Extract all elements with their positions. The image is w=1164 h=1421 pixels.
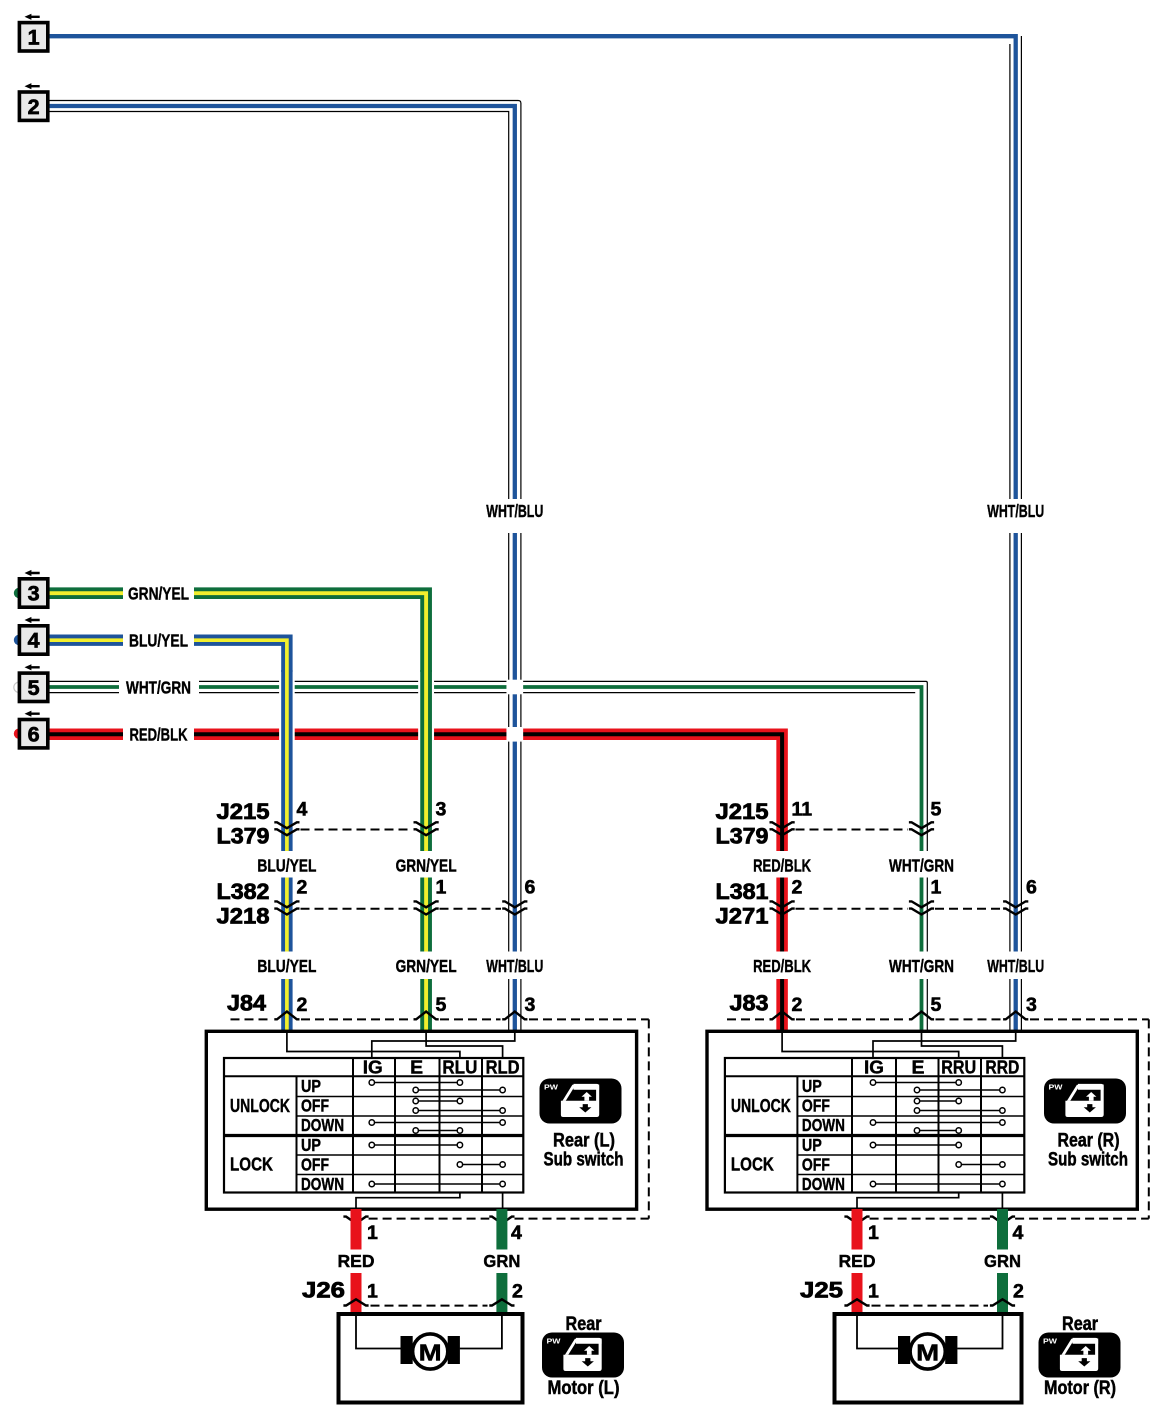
switch Rear (L): caption — [544, 1131, 624, 1171]
svg-text:5: 5 — [436, 994, 447, 1016]
wire 4 BLU/YEL from connector 4 — [46, 640, 287, 672]
pin 4 (Rear R switch output) — [1013, 1222, 1024, 1244]
svg-text:DOWN: DOWN — [802, 1115, 845, 1135]
label BLU/YEL below L382 — [257, 956, 316, 976]
inline connector J215/L379 (right) — [716, 799, 935, 849]
svg-text:Sub switch: Sub switch — [544, 1150, 624, 1171]
svg-text:RED/BLK: RED/BLK — [753, 956, 811, 976]
inline connector J215/L379 (left) — [217, 799, 439, 849]
svg-text:OFF: OFF — [301, 1096, 329, 1116]
svg-text:WHT/GRN: WHT/GRN — [889, 856, 954, 876]
connector J83 (Rear R sub switch) — [727, 991, 1149, 1020]
svg-text:BLU/YEL: BLU/YEL — [257, 856, 316, 876]
wire 2 WHT/BLU from connector 2 to Rear(L) sub switch pin 3 — [46, 101, 521, 1032]
svg-text:2: 2 — [512, 1281, 523, 1303]
svg-text:1: 1 — [367, 1222, 378, 1244]
label BLU/YEL below J215 — [257, 856, 316, 876]
svg-text:UNLOCK: UNLOCK — [230, 1096, 290, 1116]
svg-text:DOWN: DOWN — [301, 1115, 344, 1135]
svg-text:2: 2 — [792, 877, 803, 899]
svg-text:RRU: RRU — [941, 1058, 976, 1078]
motor Motor (L): motor symbol M — [401, 1334, 460, 1369]
pin 5 of J83 — [931, 994, 942, 1016]
wire 3 GRN/YEL from connector 3 — [46, 593, 426, 672]
svg-text:GRN/YEL: GRN/YEL — [396, 856, 457, 876]
connector 5 — [14, 664, 48, 701]
wire 6 RED/BLK from connector 6 — [46, 734, 782, 1031]
motor Motor (R): power window icon — [1039, 1333, 1121, 1378]
svg-text:RRD: RRD — [985, 1058, 1019, 1078]
svg-text:2: 2 — [792, 994, 803, 1016]
svg-text:1: 1 — [868, 1222, 879, 1244]
svg-text:1: 1 — [367, 1281, 378, 1303]
switch Rear (L): power window icon — [540, 1079, 622, 1124]
svg-text:RED: RED — [839, 1251, 876, 1271]
svg-text:1: 1 — [868, 1281, 879, 1303]
svg-text:1: 1 — [28, 25, 40, 49]
label GRN/YEL below L382 — [396, 956, 457, 976]
pin 2 of J25 — [1013, 1281, 1024, 1303]
svg-text:Motor (L): Motor (L) — [548, 1378, 620, 1399]
svg-text:WHT/BLU: WHT/BLU — [987, 501, 1044, 521]
label WHT/BLU below L381 — [987, 956, 1044, 976]
pin 2 of J83 — [792, 994, 803, 1016]
svg-text:E: E — [410, 1058, 423, 1078]
svg-text:RLU: RLU — [442, 1058, 477, 1078]
svg-text:5: 5 — [931, 994, 942, 1016]
svg-text:GRN: GRN — [483, 1251, 520, 1271]
switch Rear (R): box — [707, 1031, 1137, 1209]
switch Rear (R): contacts — [870, 1080, 1005, 1187]
svg-text:2: 2 — [28, 95, 40, 119]
svg-text:5: 5 — [931, 799, 942, 821]
svg-text:3: 3 — [525, 994, 536, 1016]
inline connector L381/J271 (right) — [716, 879, 1029, 929]
svg-text:3: 3 — [1026, 994, 1037, 1016]
pin 2 of J26 — [512, 1281, 523, 1303]
pin 2 of L381 — [792, 877, 803, 899]
svg-text:UP: UP — [802, 1076, 822, 1096]
svg-text:4: 4 — [28, 629, 40, 653]
label RED/BLK below L381 — [753, 956, 811, 976]
svg-text:4: 4 — [511, 1222, 522, 1244]
label WHT/GRN below L381 — [889, 956, 954, 976]
svg-text:Rear (L): Rear (L) — [553, 1131, 615, 1152]
svg-text:J84: J84 — [227, 991, 266, 1016]
svg-text:L381: L381 — [716, 879, 769, 904]
svg-text:J215: J215 — [217, 799, 270, 824]
pin 1 of L382 — [436, 877, 447, 899]
connector 1 — [19, 14, 47, 51]
pin 3 of J84 — [525, 994, 536, 1016]
svg-text:OFF: OFF — [802, 1155, 830, 1175]
label GRN/YEL below J215 — [396, 856, 457, 876]
svg-text:1: 1 — [931, 877, 942, 899]
label GRN (Motor R) — [984, 1251, 1021, 1271]
svg-text:M: M — [916, 1340, 939, 1366]
svg-text:6: 6 — [1026, 877, 1037, 899]
wire crossover gaps — [279, 680, 523, 742]
svg-text:DOWN: DOWN — [301, 1174, 344, 1194]
motor Motor (R): caption — [1044, 1314, 1116, 1399]
svg-text:WHT/BLU: WHT/BLU — [987, 956, 1044, 976]
svg-text:3: 3 — [28, 582, 40, 606]
svg-text:L379: L379 — [217, 824, 270, 849]
svg-text:LOCK: LOCK — [731, 1155, 774, 1175]
svg-text:6: 6 — [28, 722, 40, 746]
label RED/BLK wire 6 — [130, 725, 188, 745]
pin 1 (Rear L switch output) — [367, 1222, 378, 1244]
inline connector L382/J218 (left) — [217, 879, 528, 929]
svg-text:WHT/GRN: WHT/GRN — [889, 956, 954, 976]
svg-text:Rear: Rear — [566, 1314, 603, 1335]
label WHT/BLU below L382 — [486, 956, 543, 976]
pin 11 of J215 — [792, 799, 813, 821]
svg-text:UP: UP — [301, 1076, 321, 1096]
svg-text:LOCK: LOCK — [230, 1155, 273, 1175]
svg-text:J271: J271 — [716, 904, 769, 929]
connector 3 — [14, 570, 48, 607]
wire 5 WHT/GRN from connector 5 — [46, 681, 927, 1031]
connector J26 (Motor L) — [302, 1278, 515, 1306]
pin 3 of J215 — [436, 799, 447, 821]
pin 2 of L382 — [297, 877, 308, 899]
label WHT/GRN wire 5 — [126, 678, 191, 698]
pin 6 of L381 — [1026, 877, 1037, 899]
label WHT/BLU on left vertical — [486, 501, 543, 521]
connector J25 (Motor R) — [800, 1278, 1015, 1306]
label WHT/GRN below J215 — [889, 856, 954, 876]
svg-text:RED/BLK: RED/BLK — [753, 856, 811, 876]
pin 4 of J215 — [297, 799, 308, 821]
svg-text:UP: UP — [802, 1135, 822, 1155]
svg-text:2: 2 — [297, 877, 308, 899]
pin 3 of J83 — [1026, 994, 1037, 1016]
label RED (Motor R) — [839, 1251, 876, 1271]
motor Motor (L): power window icon — [542, 1333, 624, 1378]
svg-text:RED: RED — [338, 1251, 375, 1271]
connector 2 — [19, 83, 47, 120]
svg-text:Rear: Rear — [1062, 1314, 1099, 1335]
pin 1 of J25 — [868, 1281, 879, 1303]
switch Rear (L): column headers — [363, 1058, 520, 1078]
switch Rear (R): row labels — [731, 1076, 845, 1194]
switch Rear (L): internal wires from pins to contact columns — [287, 1031, 515, 1209]
motor Motor (L): caption — [548, 1314, 620, 1399]
switch Rear (R): caption — [1048, 1131, 1128, 1171]
svg-text:GRN/YEL: GRN/YEL — [128, 584, 189, 604]
connector 6 — [14, 711, 48, 748]
wire 1 WHT/BLU from connector 1 to Rear(R) sub switch pin 3 — [46, 36, 1021, 1031]
switch Rear (L): box — [206, 1031, 636, 1209]
motor Motor (R): motor symbol M — [898, 1334, 957, 1369]
svg-text:L379: L379 — [716, 824, 769, 849]
switch Rear (L): contact table grid — [224, 1058, 523, 1193]
svg-text:J26: J26 — [302, 1278, 345, 1303]
pin 1 of L381 — [931, 877, 942, 899]
svg-text:BLU/YEL: BLU/YEL — [129, 631, 188, 651]
pin 5 of J215 — [931, 799, 942, 821]
motor wire label gaps — [350, 1250, 1010, 1274]
label GRN (Motor L) — [483, 1251, 520, 1271]
svg-text:1: 1 — [436, 877, 447, 899]
label RED (Motor L) — [338, 1251, 375, 1271]
svg-text:GRN: GRN — [984, 1251, 1021, 1271]
svg-text:J215: J215 — [716, 799, 769, 824]
switch Rear (L): row labels — [230, 1076, 344, 1194]
svg-text:UNLOCK: UNLOCK — [731, 1096, 791, 1116]
label GRN/YEL wire 3 — [128, 584, 189, 604]
wire GRN to Motor(L) pin 2 — [496, 1209, 507, 1314]
svg-text:WHT/BLU: WHT/BLU — [486, 501, 543, 521]
label RED/BLK below J215 — [753, 856, 811, 876]
svg-text:OFF: OFF — [301, 1155, 329, 1175]
connector 4 — [14, 617, 48, 654]
pin 4 (Rear L switch output) — [511, 1222, 522, 1244]
motor Motor (R): box — [835, 1314, 1022, 1403]
pin 2 of J84 — [297, 994, 308, 1016]
wire GRN/YEL vertical drop to J84 pin 5 — [420, 670, 432, 1031]
motor Motor (R): internal wires — [857, 1316, 1003, 1349]
svg-text:5: 5 — [28, 676, 40, 700]
svg-text:E: E — [912, 1058, 925, 1078]
wire label gaps — [119, 499, 1023, 979]
switch Rear (R): column headers — [864, 1058, 1019, 1078]
wire BLU/YEL vertical drop to J84 pin 2 — [281, 670, 292, 1031]
pin 1 (Rear R switch output) — [868, 1222, 879, 1244]
svg-text:Rear (R): Rear (R) — [1058, 1131, 1120, 1152]
svg-text:Sub switch: Sub switch — [1048, 1150, 1128, 1171]
motor Motor (L): internal wires — [356, 1316, 502, 1349]
wire GRN to Motor(R) pin 2 — [997, 1209, 1008, 1314]
switch Rear (R): internal wires from pins to contact columns — [782, 1031, 1016, 1209]
label BLU/YEL wire 4 — [129, 631, 188, 651]
svg-text:OFF: OFF — [802, 1096, 830, 1116]
label WHT/BLU on right vertical — [987, 501, 1044, 521]
wire RED to Motor(L) pin 1 — [351, 1209, 362, 1314]
svg-text:J25: J25 — [800, 1278, 843, 1303]
svg-text:GRN/YEL: GRN/YEL — [396, 956, 457, 976]
svg-text:BLU/YEL: BLU/YEL — [257, 956, 316, 976]
svg-text:2: 2 — [1013, 1281, 1024, 1303]
svg-text:IG: IG — [864, 1058, 884, 1078]
svg-text:6: 6 — [525, 877, 536, 899]
svg-text:IG: IG — [363, 1058, 383, 1078]
svg-text:4: 4 — [1013, 1222, 1024, 1244]
svg-text:DOWN: DOWN — [802, 1174, 845, 1194]
pin 5 of J84 — [436, 994, 447, 1016]
svg-text:M: M — [419, 1340, 442, 1366]
wire RED to Motor(R) pin 1 — [852, 1209, 863, 1314]
pin 6 of L382 — [525, 877, 536, 899]
svg-text:L382: L382 — [217, 879, 270, 904]
pin 1 of J26 — [367, 1281, 378, 1303]
switch Rear (R): power window icon — [1044, 1079, 1126, 1124]
svg-text:2: 2 — [297, 994, 308, 1016]
svg-text:WHT/BLU: WHT/BLU — [486, 956, 543, 976]
svg-text:RED/BLK: RED/BLK — [130, 725, 188, 745]
svg-text:11: 11 — [792, 799, 813, 821]
svg-text:3: 3 — [436, 799, 447, 821]
switch Rear (R): contact table grid — [725, 1058, 1024, 1193]
svg-text:4: 4 — [297, 799, 308, 821]
switch Rear (R): connector dashed outline — [844, 1019, 1148, 1223]
switch Rear (L): contacts — [369, 1080, 505, 1187]
svg-text:WHT/GRN: WHT/GRN — [126, 678, 191, 698]
svg-text:J83: J83 — [730, 991, 769, 1016]
svg-text:J218: J218 — [217, 904, 270, 929]
switch Rear (L): connector dashed outline — [343, 1019, 648, 1223]
motor Motor (L): box — [339, 1314, 523, 1403]
connector J84 (Rear L sub switch) — [227, 991, 649, 1020]
svg-text:Motor (R): Motor (R) — [1044, 1378, 1116, 1399]
svg-text:RLD: RLD — [486, 1058, 520, 1078]
svg-text:UP: UP — [301, 1135, 321, 1155]
